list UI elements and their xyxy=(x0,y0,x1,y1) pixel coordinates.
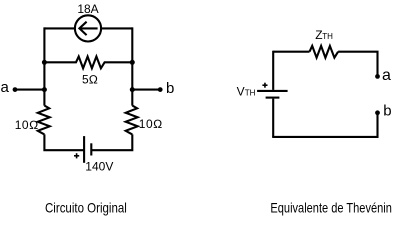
node b terminal thevenin xyxy=(375,110,380,115)
svg-text:Equivalente de Thevénin: Equivalente de Thevénin xyxy=(270,199,392,215)
svg-text:a: a xyxy=(1,79,10,96)
wire left rail upper xyxy=(43,27,45,105)
resistor 10 ohm right xyxy=(126,106,138,135)
svg-text:TH: TH xyxy=(322,32,333,41)
wire top-left segment to current source xyxy=(44,27,75,29)
battery plus sign xyxy=(74,153,79,158)
resistor 10 ohm left xyxy=(38,106,50,135)
wire current source to top-right corner xyxy=(101,27,132,29)
svg-text:b: b xyxy=(166,80,174,97)
junction b on right rail xyxy=(130,87,135,92)
value label Vth xyxy=(237,85,256,99)
svg-text:10Ω: 10Ω xyxy=(139,117,163,131)
battery Vth xyxy=(257,91,288,98)
junction left of 5 ohm xyxy=(42,60,47,65)
svg-text:140V: 140V xyxy=(85,160,113,174)
wire thevenin bottom xyxy=(272,113,377,137)
wire right rail to terminal b xyxy=(132,89,160,91)
wire right rail upper xyxy=(131,27,133,105)
resistor Zth xyxy=(310,46,339,58)
svg-text:V: V xyxy=(237,85,245,99)
svg-text:b: b xyxy=(383,102,391,119)
node b terminal xyxy=(158,87,163,92)
svg-text:Circuito Original: Circuito Original xyxy=(45,199,127,215)
value label Zth xyxy=(315,28,333,42)
svg-text:a: a xyxy=(382,67,391,84)
wire Zth to thevenin top-right corner xyxy=(338,52,377,77)
svg-text:18A: 18A xyxy=(77,2,98,16)
wire thevenin top-left to Zth xyxy=(273,51,309,53)
battery Vth plus sign xyxy=(262,83,267,88)
wire right rail lower xyxy=(91,134,132,151)
wire thevenin left rail lower xyxy=(272,99,274,137)
node a terminal thevenin xyxy=(375,74,380,79)
svg-text:5Ω: 5Ω xyxy=(82,72,98,86)
junction a on left rail xyxy=(42,87,47,92)
node a terminal xyxy=(13,87,18,92)
wire terminal a to left rail xyxy=(15,89,44,91)
current source 18A xyxy=(75,15,101,41)
junction right of 5 ohm xyxy=(130,60,135,65)
resistor 5 ohm xyxy=(44,57,132,69)
battery 140V xyxy=(84,136,91,163)
wire thevenin left rail upper xyxy=(272,51,274,90)
svg-text:TH: TH xyxy=(245,89,256,98)
wire left rail lower xyxy=(44,134,84,151)
svg-text:10Ω: 10Ω xyxy=(15,118,39,132)
